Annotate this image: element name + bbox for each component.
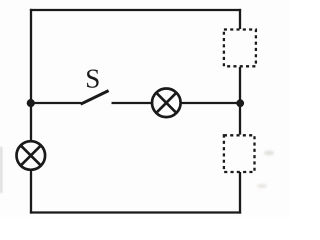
wire: left vertical upper (top corner to left lamp) (30, 9, 32, 141)
wire: left vertical lower (left lamp to bottom corner) (30, 171, 32, 214)
wire: middle branch, middle lamp to node B (182, 102, 241, 104)
dashed box 2 (lower right component placeholder) (224, 135, 255, 172)
svg-text:S: S (85, 64, 100, 94)
wire: right vertical upper (top corner to dashed box 1) (239, 9, 241, 29)
lamp (left branch, circle with X) (17, 141, 46, 170)
node B (right junction dot) (236, 99, 244, 107)
wire: middle branch, node A to switch pivot (31, 102, 81, 104)
wire: right vertical middle (dashed box 1 to node B to dashed box 2) (239, 67, 241, 135)
wire: bottom horizontal (30, 211, 241, 213)
node A (left junction dot) (27, 99, 35, 107)
wire: middle branch, switch contact to middle lamp (112, 102, 152, 104)
wire: right vertical lower (dashed box 2 to bottom corner) (239, 172, 241, 214)
lamp (middle branch, circle with X) (152, 89, 181, 118)
wire: top horizontal (30, 9, 241, 11)
switch S blade (81, 91, 109, 105)
dashed box 1 (upper right component placeholder) (224, 30, 256, 67)
